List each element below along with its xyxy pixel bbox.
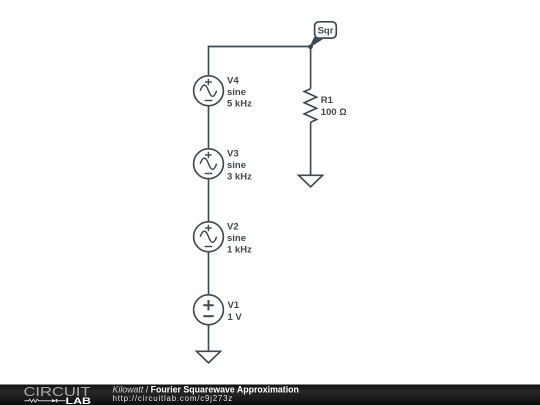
footer bar <box>0 385 540 405</box>
svg-text:LAB: LAB <box>66 396 92 405</box>
svg-text:V2: V2 <box>227 221 239 232</box>
resistor R1 <box>304 89 316 122</box>
wire V1 to ground <box>208 325 210 352</box>
logo diode <box>52 399 56 402</box>
svg-text:sine: sine <box>227 160 246 171</box>
wire V3 to V2 <box>208 179 210 222</box>
svg-text:3 kHz: 3 kHz <box>227 172 252 183</box>
wire right vertical <box>310 47 312 89</box>
ground left <box>197 351 221 363</box>
svg-text:1 V: 1 V <box>228 312 243 323</box>
svg-text:Kilowatt / Fourier Squarewave: Kilowatt / Fourier Squarewave Approximat… <box>113 385 299 395</box>
voltage source V1 <box>194 295 224 325</box>
svg-text:R1: R1 <box>321 95 334 106</box>
voltage source V2 <box>194 222 224 252</box>
svg-text:Sqr: Sqr <box>318 25 334 36</box>
svg-text:http://circuitlab.com/c9j273z: http://circuitlab.com/c9j273z <box>113 394 233 403</box>
wire V2 to V1 <box>208 252 210 295</box>
node flag Sqr box <box>315 22 337 38</box>
logo zigzag resistor <box>24 399 52 402</box>
labels <box>227 75 347 322</box>
ground right <box>299 175 323 187</box>
svg-text:V3: V3 <box>227 148 239 159</box>
node flag Sqr tail <box>310 38 323 47</box>
svg-text:V1: V1 <box>228 300 240 311</box>
voltage source V3 <box>194 149 224 179</box>
svg-text:sine: sine <box>227 87 246 98</box>
junction node dot <box>308 44 313 49</box>
svg-text:sine: sine <box>227 233 246 244</box>
svg-text:100 Ω: 100 Ω <box>321 107 347 118</box>
svg-text:V4: V4 <box>227 75 239 86</box>
wire R1 to ground <box>310 122 312 175</box>
wire top horizontal and left corner <box>209 47 311 76</box>
svg-text:5 kHz: 5 kHz <box>227 99 252 110</box>
wire V4 to V3 <box>208 106 210 149</box>
voltage source V4 <box>194 76 224 106</box>
svg-text:1 kHz: 1 kHz <box>227 245 252 256</box>
